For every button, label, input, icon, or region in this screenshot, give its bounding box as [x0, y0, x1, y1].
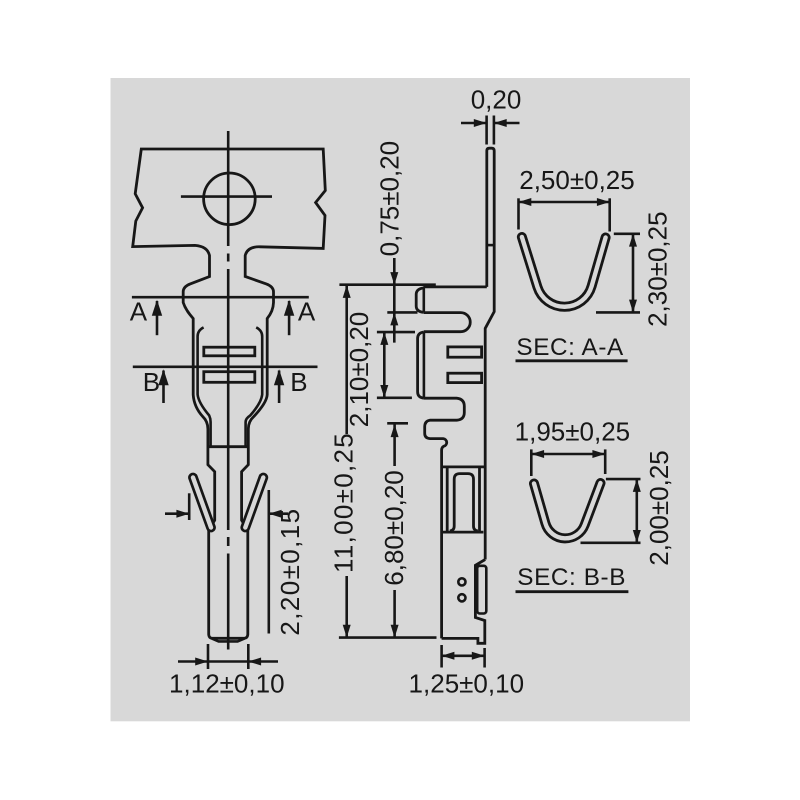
dim 0,20 left arrow line — [461, 122, 486, 125]
A-A left arrow stem — [156, 301, 159, 335]
dim 1,25 left extension — [440, 645, 443, 668]
side tab outline — [418, 332, 424, 398]
dim 1,95 left arrowhead — [531, 450, 544, 458]
svg-text:2,00±0,25: 2,00±0,25 — [644, 450, 674, 565]
dim 2,10 top arrowhead — [380, 332, 388, 345]
dim 2,50 left extension — [517, 198, 520, 229]
blade tip chamfer tick — [487, 244, 494, 247]
side tab attachment line — [423, 332, 426, 398]
dim 2,20 right arrowhead — [269, 510, 282, 518]
SEC B-B U-band — [534, 483, 601, 538]
dim 1,25 line — [442, 654, 485, 657]
terminal front-view outline — [133, 149, 326, 638]
side view blade and right edge — [485, 148, 494, 559]
left crimp wing — [193, 478, 211, 528]
dim 1,95 left extension — [530, 449, 533, 476]
dim 6,80 top extension tick — [387, 422, 408, 425]
dim 2,50 right extension — [608, 198, 611, 231]
dim 2,00 line — [635, 479, 638, 543]
dim 11,00 top arrowhead — [343, 285, 351, 298]
dim 0,75 leader line — [393, 258, 396, 343]
dim 2,10 bottom arrowhead — [380, 385, 388, 398]
A-A right arrow stem — [288, 301, 291, 335]
right crimp wing — [245, 478, 263, 528]
svg-text:B: B — [143, 367, 160, 397]
dim 11,00/6,80 bottom extension — [339, 636, 437, 639]
svg-text:2,50±0,25: 2,50±0,25 — [519, 165, 634, 195]
dim 2,20 left extension — [188, 493, 191, 520]
carrier pilot hole — [204, 173, 256, 225]
svg-text:A: A — [298, 297, 316, 327]
svg-text:2,20±0,15: 2,20±0,15 — [275, 508, 305, 636]
SEC A-A U-band — [522, 237, 606, 307]
front view right inner wall line — [246, 327, 263, 446]
dim 0,75 lower extension tick — [387, 311, 417, 314]
dim 1,25 left arrowhead — [442, 652, 455, 660]
svg-text:B: B — [290, 367, 307, 397]
pin tip chamfer — [212, 639, 245, 642]
dim 0,20 left arrowhead — [474, 119, 487, 127]
insulation clip tab — [477, 566, 486, 614]
dim 0,20 right arrow line — [495, 122, 520, 125]
underline SEC A-A — [516, 359, 628, 362]
dim 0,75 lower arrowhead — [390, 313, 398, 326]
dimple dot upper — [458, 578, 465, 585]
dim 2,00 bottom arrowhead — [633, 530, 641, 543]
dim 2,00 bottom extension — [581, 541, 641, 544]
wire crimp right wall — [478, 467, 481, 532]
A-A right arrowhead — [284, 300, 294, 316]
underline SEC B-B — [516, 590, 629, 593]
dim 2,20 right extension — [267, 490, 270, 634]
retention hook attachment line — [422, 288, 425, 313]
wire crimp top edge — [442, 465, 486, 468]
dim 2,10 bottom extension — [377, 396, 412, 399]
dim 1,12 line — [178, 660, 278, 663]
dim 1,12 right arrowhead — [248, 658, 261, 666]
dim 11,00 line lower — [345, 576, 348, 638]
dim 0,75 upper arrowhead — [390, 272, 398, 285]
section line B-B — [133, 365, 318, 368]
dim 2,00 top extension — [606, 478, 641, 481]
dim 6,80 line upper — [393, 424, 396, 466]
side view top edge — [423, 285, 486, 288]
dim 2,50 right arrowhead — [597, 198, 610, 206]
svg-text:2,30±0,25: 2,30±0,25 — [642, 211, 672, 326]
dim 0,20 left extension — [485, 116, 488, 145]
side view neck profile — [424, 398, 464, 638]
A-A left arrowhead — [152, 300, 162, 316]
dim 6,80 bottom arrowhead — [391, 625, 399, 638]
dim 1,95 line — [531, 453, 605, 456]
dim 1,25 right arrowhead — [472, 652, 485, 660]
side view lower right edge and bottom — [442, 560, 486, 644]
side upper lance window — [448, 347, 482, 357]
wire crimp bottom edge — [442, 531, 484, 534]
upper lance window — [204, 347, 255, 356]
dim 6,80 line lower — [393, 590, 396, 638]
dim 2,00 top arrowhead — [633, 479, 641, 492]
dimple dot lower — [458, 594, 465, 601]
dim 2,10 line — [383, 332, 386, 398]
svg-text:1,95±0,25: 1,95±0,25 — [515, 417, 630, 447]
dim 2,50 line — [519, 201, 610, 204]
dim 2,30 bottom extension — [596, 311, 640, 314]
dim 2,30 bottom arrowhead — [629, 300, 637, 313]
svg-text:1,25±0,10: 1,25±0,10 — [409, 669, 524, 699]
B-B left arrowhead — [158, 369, 168, 385]
svg-text:0,20: 0,20 — [471, 85, 522, 115]
dim 2,50 left arrowhead — [519, 198, 532, 206]
svg-text:SEC: B-B: SEC: B-B — [517, 564, 626, 591]
dim 2,20 left arrow line — [165, 512, 188, 515]
dim 2,30 top extension — [614, 233, 640, 236]
dim 6,80 top arrowhead — [391, 424, 399, 437]
wire crimp inner U slot — [450, 474, 478, 531]
dim 1,95 right extension — [604, 449, 607, 474]
dim 2,10 top extension — [377, 331, 415, 334]
svg-text:0,75±0,20: 0,75±0,20 — [375, 141, 405, 256]
dim 11,00 bottom arrowhead — [343, 625, 351, 638]
dim 11,00 top extension — [339, 283, 435, 286]
dim 2,30 top arrowhead — [629, 234, 637, 247]
dim 2,30 line — [632, 234, 635, 313]
pilot hole horizontal centerline — [181, 195, 272, 198]
dim 2,20 right arrow line — [270, 512, 288, 515]
dim 0,20 right arrowhead — [494, 119, 507, 127]
dim 11,00 line upper — [345, 285, 348, 434]
svg-text:SEC: A-A: SEC: A-A — [516, 334, 624, 361]
drawing panel background — [111, 78, 691, 721]
svg-text:2,10±0,20: 2,10±0,20 — [344, 312, 374, 427]
dim 1,95 right arrowhead — [592, 450, 605, 458]
dim 2,20 left arrowhead — [176, 510, 189, 518]
wire crimp left wall — [446, 467, 449, 532]
svg-text:6,80±0,20: 6,80±0,20 — [379, 470, 409, 585]
crimp wing shoulder edge — [208, 445, 249, 448]
retention hook bracket — [416, 288, 424, 313]
front view vertical centerline — [227, 131, 230, 650]
B-B left arrow stem — [162, 371, 165, 404]
svg-text:A: A — [130, 297, 148, 327]
dim 1,12 left arrowhead — [195, 658, 208, 666]
dim 1,25 right extension — [483, 648, 486, 668]
front view left inner wall line — [198, 327, 211, 446]
dim 1,12 right extension — [247, 644, 250, 669]
dim 1,12 left extension — [207, 644, 210, 669]
section line A-A — [132, 296, 309, 299]
svg-text:11,00±0,25: 11,00±0,25 — [329, 432, 359, 573]
B-B right arrowhead — [274, 369, 284, 385]
dim 0,20 right extension — [493, 116, 496, 145]
B-B right arrow stem — [278, 371, 281, 404]
lower lance window — [204, 372, 255, 383]
side lower lance window — [448, 373, 482, 382]
side slot with round end — [424, 313, 470, 332]
svg-text:1,12±0,10: 1,12±0,10 — [169, 669, 284, 699]
